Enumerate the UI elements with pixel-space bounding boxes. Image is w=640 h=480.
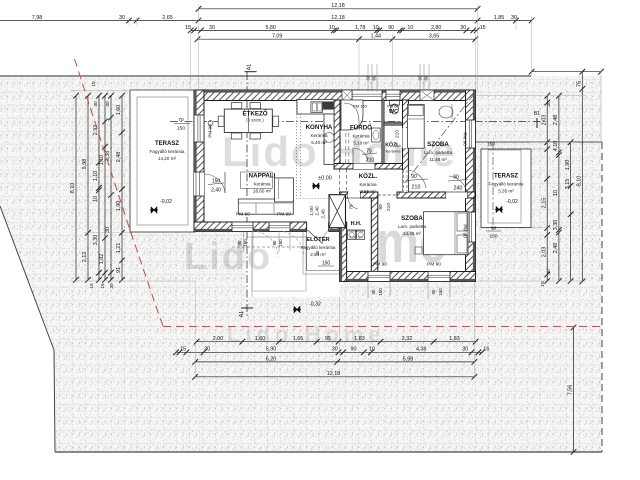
- wall konyha-furdo: [334, 100, 340, 169]
- svg-text:2,12: 2,12: [82, 252, 88, 263]
- svg-text:10: 10: [373, 25, 379, 31]
- svg-text:3,30: 3,30: [553, 220, 559, 231]
- svg-text:-0,02: -0,02: [506, 199, 518, 205]
- red boundary horizontal (dashed): [163, 326, 602, 328]
- svg-text:5,90: 5,90: [266, 347, 277, 353]
- left dim line 2,92/1,10/10: [98, 96, 100, 280]
- svg-text:NAPPALI: NAPPALI: [249, 173, 276, 180]
- bottom extension lines: [194, 281, 196, 378]
- szoba2 nightstand: [415, 247, 422, 254]
- right dim line 2,48/4,10/3,30/2,48: [558, 96, 560, 281]
- svg-text:Kerámia: Kerámia: [386, 149, 402, 154]
- top dim chain 12,18 upper: [199, 8, 478, 10]
- svg-text:1,10: 1,10: [93, 171, 99, 182]
- svg-text:240: 240: [454, 186, 463, 192]
- svg-text:KONYHA: KONYHA: [306, 124, 333, 131]
- right dim line 1,90/3,15: [570, 142, 572, 281]
- svg-text:Fagyálló kerámia: Fagyálló kerámia: [150, 149, 185, 154]
- svg-text:95: 95: [325, 336, 331, 342]
- svg-text:210: 210: [395, 130, 401, 138]
- szoba1 door opening dashes: [403, 170, 405, 192]
- furdo door 75 with arc: [353, 164, 375, 170]
- top right dim line to boundary: [532, 71, 601, 73]
- eloter floor edge lines: [306, 231, 308, 271]
- svg-text:2,40: 2,40: [321, 209, 327, 219]
- svg-text:30: 30: [105, 101, 111, 107]
- svg-text:SZOBA: SZOBA: [401, 215, 423, 222]
- window PM90 right wall (szoba1): [466, 120, 476, 148]
- svg-text:3,38: 3,38: [105, 151, 111, 162]
- site parcel (stippled ground): [0, 76, 602, 452]
- svg-text:30: 30: [546, 101, 552, 107]
- svg-text:3,30: 3,30: [93, 235, 99, 246]
- svg-text:Fagyálló kerámia: Fagyálló kerámia: [489, 182, 524, 187]
- entrance porch slab: [246, 231, 340, 297]
- svg-text:12,18: 12,18: [331, 3, 345, 9]
- nappali sofa right: [275, 178, 294, 202]
- left dim line 1,60/2,48/1,90/1,21/91: [121, 96, 123, 280]
- wall kozl bottom segment b: [360, 192, 378, 198]
- svg-text:-0,32: -0,32: [309, 302, 321, 308]
- wall kozl bottom segment a: [340, 192, 349, 198]
- dotted divider nappali south: [297, 198, 330, 200]
- svg-text:5,16 m²: 5,16 m²: [353, 141, 369, 146]
- svg-text:5,40 m²: 5,40 m²: [311, 140, 327, 145]
- wall furdo-wc thin: [382, 100, 385, 164]
- window PM90 bottom-right (szoba2) 1: [368, 272, 390, 282]
- svg-text:11,48 m²: 11,48 m²: [429, 157, 447, 162]
- section line B1 horizontal: [170, 121, 545, 123]
- svg-text:Lam. parketta: Lam. parketta: [424, 150, 453, 155]
- window PM90 bottom-right (szoba2) 2: [428, 272, 450, 282]
- wall corner block at front door: [329, 222, 347, 232]
- konyha counter right run: [324, 114, 334, 165]
- svg-text:90: 90: [378, 204, 384, 210]
- svg-text:30: 30: [105, 227, 111, 233]
- szoba1 door 90/210 with arc: [403, 170, 409, 192]
- left dim line 8,10: [75, 96, 77, 280]
- right extension lines: [475, 95, 586, 97]
- svg-text:15: 15: [91, 81, 97, 87]
- bottom dim chain 15/30/5,90/30/90/10/4,38/30/15: [176, 351, 482, 353]
- house footprint: [194, 90, 476, 297]
- szoba2 door 90 dashes: [378, 194, 397, 196]
- left terrace slab: [130, 90, 195, 232]
- svg-text:30: 30: [204, 347, 210, 353]
- beam dashes over nappali-kozl opening: [339, 169, 341, 195]
- szoba1 bed: [407, 104, 424, 148]
- svg-text:5,98: 5,98: [403, 356, 414, 362]
- site boundary bottom edge: [55, 451, 602, 453]
- svg-text:1,83: 1,83: [449, 336, 460, 342]
- svg-text:2,97 m²: 2,97 m²: [349, 235, 363, 240]
- svg-text:1,60: 1,60: [116, 105, 122, 116]
- red boundary diagonal (dashed): [75, 59, 164, 326]
- dotted divider etkezo-konyha: [296, 99, 298, 199]
- svg-text:5,35 m²: 5,35 m²: [498, 189, 514, 194]
- svg-text:90: 90: [431, 289, 436, 294]
- svg-text:1,78: 1,78: [355, 25, 366, 31]
- window PM90 left wall (etkezo): [194, 115, 204, 142]
- svg-text:4,38: 4,38: [416, 347, 427, 353]
- svg-text:15: 15: [180, 347, 186, 353]
- svg-text:90: 90: [371, 289, 376, 294]
- svg-text:15: 15: [483, 347, 489, 353]
- left dim line 5,98/2,12: [87, 96, 89, 280]
- right dim line 7,56: [573, 328, 575, 453]
- svg-text:1,21: 1,21: [116, 243, 122, 254]
- svg-text:Kerámia: Kerámia: [359, 182, 377, 187]
- svg-text:2,48: 2,48: [553, 243, 559, 254]
- svg-text:3,65: 3,65: [429, 34, 440, 40]
- svg-text:ÉTKEZŐ: ÉTKEZŐ: [242, 110, 267, 118]
- survey circle on B1 line: [208, 121, 213, 126]
- outer wall bottom-right: [340, 272, 476, 282]
- wc toilet: [390, 100, 400, 105]
- svg-text:150: 150: [177, 126, 185, 132]
- svg-text:210: 210: [366, 158, 375, 164]
- svg-text:H.H.: H.H.: [351, 221, 362, 227]
- furdo bathtub corner: [341, 100, 363, 130]
- left dim line 3,38: [110, 96, 112, 280]
- svg-text:30: 30: [462, 347, 468, 353]
- svg-text:90: 90: [351, 347, 357, 353]
- fence line right of house: [475, 141, 602, 143]
- wall hh - szoba2: [371, 195, 378, 275]
- svg-text:2,48: 2,48: [553, 115, 559, 126]
- svg-text:1,44: 1,44: [371, 34, 382, 40]
- svg-text:SZOBA: SZOBA: [427, 141, 449, 148]
- svg-text:150: 150: [378, 288, 383, 296]
- svg-text:2,32: 2,32: [402, 336, 413, 342]
- svg-text:TERASZ: TERASZ: [155, 141, 179, 147]
- nappali sideboard: [241, 172, 273, 188]
- svg-text:7,09: 7,09: [272, 34, 283, 40]
- svg-text:Kerámia: Kerámia: [310, 133, 328, 138]
- svg-text:1,60: 1,60: [255, 336, 266, 342]
- svg-text:10: 10: [369, 347, 375, 353]
- svg-text:150: 150: [278, 239, 283, 247]
- svg-text:150: 150: [438, 288, 443, 296]
- svg-text:10: 10: [329, 25, 335, 31]
- svg-text:10: 10: [553, 190, 559, 196]
- svg-text:70: 70: [178, 117, 184, 123]
- svg-text:5,80: 5,80: [265, 25, 276, 31]
- svg-text:2,40: 2,40: [315, 206, 321, 216]
- vent shaft box 2 in top wall: [420, 90, 434, 101]
- terrace-right inner outline: [488, 150, 521, 223]
- front door opening 150 (elotere): [307, 222, 329, 233]
- wall furdo bottom / kozl top: [334, 164, 408, 170]
- szoba1-szoba2 door 90/240: [446, 192, 467, 198]
- svg-text:2,00: 2,00: [213, 336, 224, 342]
- svg-text:PM 90: PM 90: [427, 262, 441, 268]
- svg-text:30: 30: [546, 269, 552, 275]
- plumb dashes in furdo: [345, 101, 347, 164]
- svg-text:Lido: Lido: [184, 236, 272, 278]
- svg-text:18,60 m²: 18,60 m²: [253, 189, 272, 194]
- svg-text:91: 91: [116, 267, 122, 273]
- site boundary left vertical edge: [54, 350, 55, 452]
- top extension lines: [198, 5, 200, 92]
- furdo washbasin: [372, 128, 381, 142]
- wall szoba1-szoba2 segment: [467, 192, 475, 198]
- szoba1 chair: [439, 106, 453, 118]
- konyha stove dark: [323, 102, 334, 110]
- right terrace slab: [481, 149, 531, 228]
- svg-text:10: 10: [93, 196, 99, 202]
- outer wall top: [194, 90, 476, 101]
- svg-text:90: 90: [388, 25, 394, 31]
- svg-text:PM 90: PM 90: [208, 124, 213, 138]
- etkezo dining table: [224, 109, 272, 132]
- svg-text:Lido Home: Lido Home: [227, 322, 386, 347]
- svg-text:150: 150: [487, 142, 495, 148]
- svg-text:30: 30: [332, 347, 338, 353]
- svg-text:1,83: 1,83: [354, 336, 365, 342]
- svg-text:2,48: 2,48: [116, 152, 122, 163]
- chimney shaft box with X: [329, 195, 346, 228]
- svg-text:PM 90: PM 90: [277, 212, 291, 218]
- svg-text:TERASZ: TERASZ: [494, 174, 518, 180]
- right dim line 75/8,10: [581, 72, 583, 282]
- hh washer dryer: [348, 230, 356, 240]
- svg-text:B1: B1: [534, 111, 540, 117]
- svg-text:1,85: 1,85: [494, 15, 505, 21]
- svg-text:PM 90: PM 90: [236, 212, 250, 218]
- window dim labels below bottom-left wall: [232, 246, 306, 248]
- svg-text:210: 210: [412, 185, 421, 191]
- konyha sink: [311, 102, 323, 113]
- svg-text:2,03: 2,03: [541, 115, 547, 126]
- svg-text:12,18: 12,18: [327, 371, 341, 377]
- svg-text:30: 30: [109, 283, 115, 289]
- svg-text:PM 90: PM 90: [373, 262, 387, 268]
- svg-text:Fagyálló kerámia: Fagyálló kerámia: [301, 245, 336, 250]
- svg-text:A1: A1: [239, 311, 245, 317]
- svg-text:3,55 m²: 3,55 m²: [360, 189, 376, 194]
- svg-text:150: 150: [243, 239, 248, 247]
- left dim line 1,10/1,82: [104, 96, 106, 280]
- svg-text:30: 30: [315, 250, 320, 255]
- gardrob door in szoba wall: [403, 128, 409, 148]
- svg-text:14,45 m²: 14,45 m²: [403, 231, 422, 236]
- wall wc/gardrob - szoba: [403, 100, 409, 192]
- section dash line through right terrace: [492, 142, 494, 232]
- window PM90 bottom-left 1 (nappali): [232, 222, 253, 232]
- svg-text:90: 90: [491, 226, 497, 232]
- svg-text:KÖZL.: KÖZL.: [385, 142, 401, 149]
- svg-text:12,18: 12,18: [331, 15, 345, 21]
- svg-text:15: 15: [89, 283, 95, 289]
- svg-text:2,15: 2,15: [541, 198, 547, 209]
- svg-text:60: 60: [372, 75, 377, 80]
- top dim chain 7,09/1,44/3,65: [198, 38, 476, 40]
- svg-text:60: 60: [424, 75, 429, 80]
- hh door 75 with arc: [348, 192, 360, 198]
- svg-text:90: 90: [453, 175, 459, 181]
- svg-text:Lam. parketta: Lam. parketta: [398, 224, 427, 229]
- svg-text:WC: WC: [389, 109, 398, 115]
- vent shaft box in top wall: [342, 90, 352, 101]
- top dim chain detail 15/30/5,80/10/1,78/10/90/10/2,80/30/15: [191, 29, 477, 31]
- wall wc bottom thin: [384, 122, 403, 125]
- svg-text:75: 75: [577, 81, 583, 87]
- section line A1 vertical: [246, 72, 248, 318]
- svg-text:7,56: 7,56: [568, 385, 574, 396]
- wall kozl bottom segment c: [397, 192, 446, 198]
- bottom dim chain 2,00/1,60/1,65/95/1,83/2,32/1,83: [197, 341, 476, 343]
- svg-text:15: 15: [540, 281, 546, 287]
- window PM60 top wall (furdo): [352, 90, 382, 101]
- svg-text:15: 15: [185, 25, 191, 31]
- svg-text:30: 30: [119, 15, 125, 21]
- svg-text:3,15: 3,15: [565, 179, 571, 190]
- site boundary top edge: [0, 75, 531, 77]
- right dim line 2,03/2,15/2,03: [546, 96, 548, 281]
- svg-text:7,98: 7,98: [32, 15, 43, 21]
- outer wall bottom-left: [194, 222, 307, 232]
- svg-text:210: 210: [386, 203, 392, 211]
- svg-text:(6 szem.): (6 szem.): [246, 118, 264, 123]
- bottom dim chain 12,18: [195, 376, 474, 378]
- window dim labels below bottom-right wall: [367, 281, 369, 299]
- svg-text:±0,00: ±0,00: [318, 176, 331, 182]
- nappali sofa bottom: [238, 199, 293, 214]
- svg-text:PM 60: PM 60: [387, 104, 399, 109]
- svg-text:14,20 m²: 14,20 m²: [158, 156, 177, 161]
- svg-text:5,98: 5,98: [82, 159, 88, 170]
- konyha counter top run: [297, 100, 334, 115]
- svg-text:8,10: 8,10: [577, 176, 583, 187]
- svg-text:90: 90: [272, 240, 277, 245]
- svg-text:15: 15: [480, 25, 486, 31]
- outer wall left: [194, 90, 204, 232]
- window PM60 top wall (wc): [386, 90, 400, 101]
- bottom dim chain 6,20/5,98: [195, 361, 474, 363]
- svg-text:-0,02: -0,02: [160, 199, 172, 205]
- site boundary right edge (dashed): [601, 142, 603, 452]
- terrace door left wall 150/240: [194, 172, 204, 196]
- svg-text:Kerámia: Kerámia: [352, 134, 370, 139]
- svg-text:1,00: 1,00: [309, 206, 315, 216]
- svg-text:150: 150: [489, 234, 497, 240]
- svg-text:75: 75: [349, 204, 355, 210]
- svg-text:150: 150: [322, 261, 331, 267]
- svg-text:90: 90: [237, 240, 242, 245]
- left extension lines: [70, 89, 195, 91]
- terrace-left inner outline: [137, 97, 188, 225]
- svg-text:PM 150: PM 150: [353, 104, 368, 109]
- svg-text:1,82: 1,82: [99, 254, 105, 265]
- porch outline: [252, 237, 306, 291]
- svg-text:2,40: 2,40: [211, 188, 221, 194]
- outer wall right: [466, 90, 476, 282]
- szoba2 bed: [424, 212, 469, 255]
- svg-text:1,65: 1,65: [293, 336, 304, 342]
- svg-text:15: 15: [100, 283, 106, 289]
- svg-text:90: 90: [411, 174, 417, 180]
- svg-text:Kerámia: Kerámia: [253, 182, 271, 187]
- svg-text:2,03: 2,03: [541, 247, 547, 258]
- site boundary left diagonal edge: [0, 206, 54, 350]
- svg-text:FÜRDŐ: FÜRDŐ: [350, 125, 372, 132]
- svg-text:8,10: 8,10: [70, 183, 76, 194]
- window PM90 bottom-left 2 (nappali): [269, 222, 290, 232]
- svg-text:PM 90: PM 90: [463, 224, 468, 238]
- svg-text:10: 10: [407, 25, 413, 31]
- porch step lines: [246, 236, 306, 238]
- top dim chain overall 7,98/30/2,65/12,18/1,85/30: [0, 20, 532, 22]
- svg-text:Kerámia: Kerámia: [349, 228, 365, 233]
- svg-text:2,80: 2,80: [431, 25, 442, 31]
- svg-text:KÖZL.: KÖZL.: [359, 173, 378, 180]
- svg-text:2,65: 2,65: [162, 15, 173, 21]
- window PM90 right wall (szoba2): [466, 212, 476, 242]
- etkezo chairs: [231, 103, 242, 109]
- porch door swing dashed arcs: [252, 231, 278, 257]
- svg-text:PM 90: PM 90: [463, 132, 468, 146]
- szoba1 roof diagonal dash-dot: [403, 94, 474, 185]
- svg-text:30: 30: [209, 25, 215, 31]
- wall elotere-hh west: [340, 222, 347, 282]
- svg-text:ELŐTÉR: ELŐTÉR: [306, 235, 330, 243]
- svg-text:30: 30: [460, 25, 466, 31]
- svg-text:1,90: 1,90: [565, 160, 571, 171]
- svg-text:A1: A1: [247, 64, 253, 70]
- svg-text:6,20: 6,20: [266, 356, 277, 362]
- svg-text:30: 30: [93, 101, 99, 107]
